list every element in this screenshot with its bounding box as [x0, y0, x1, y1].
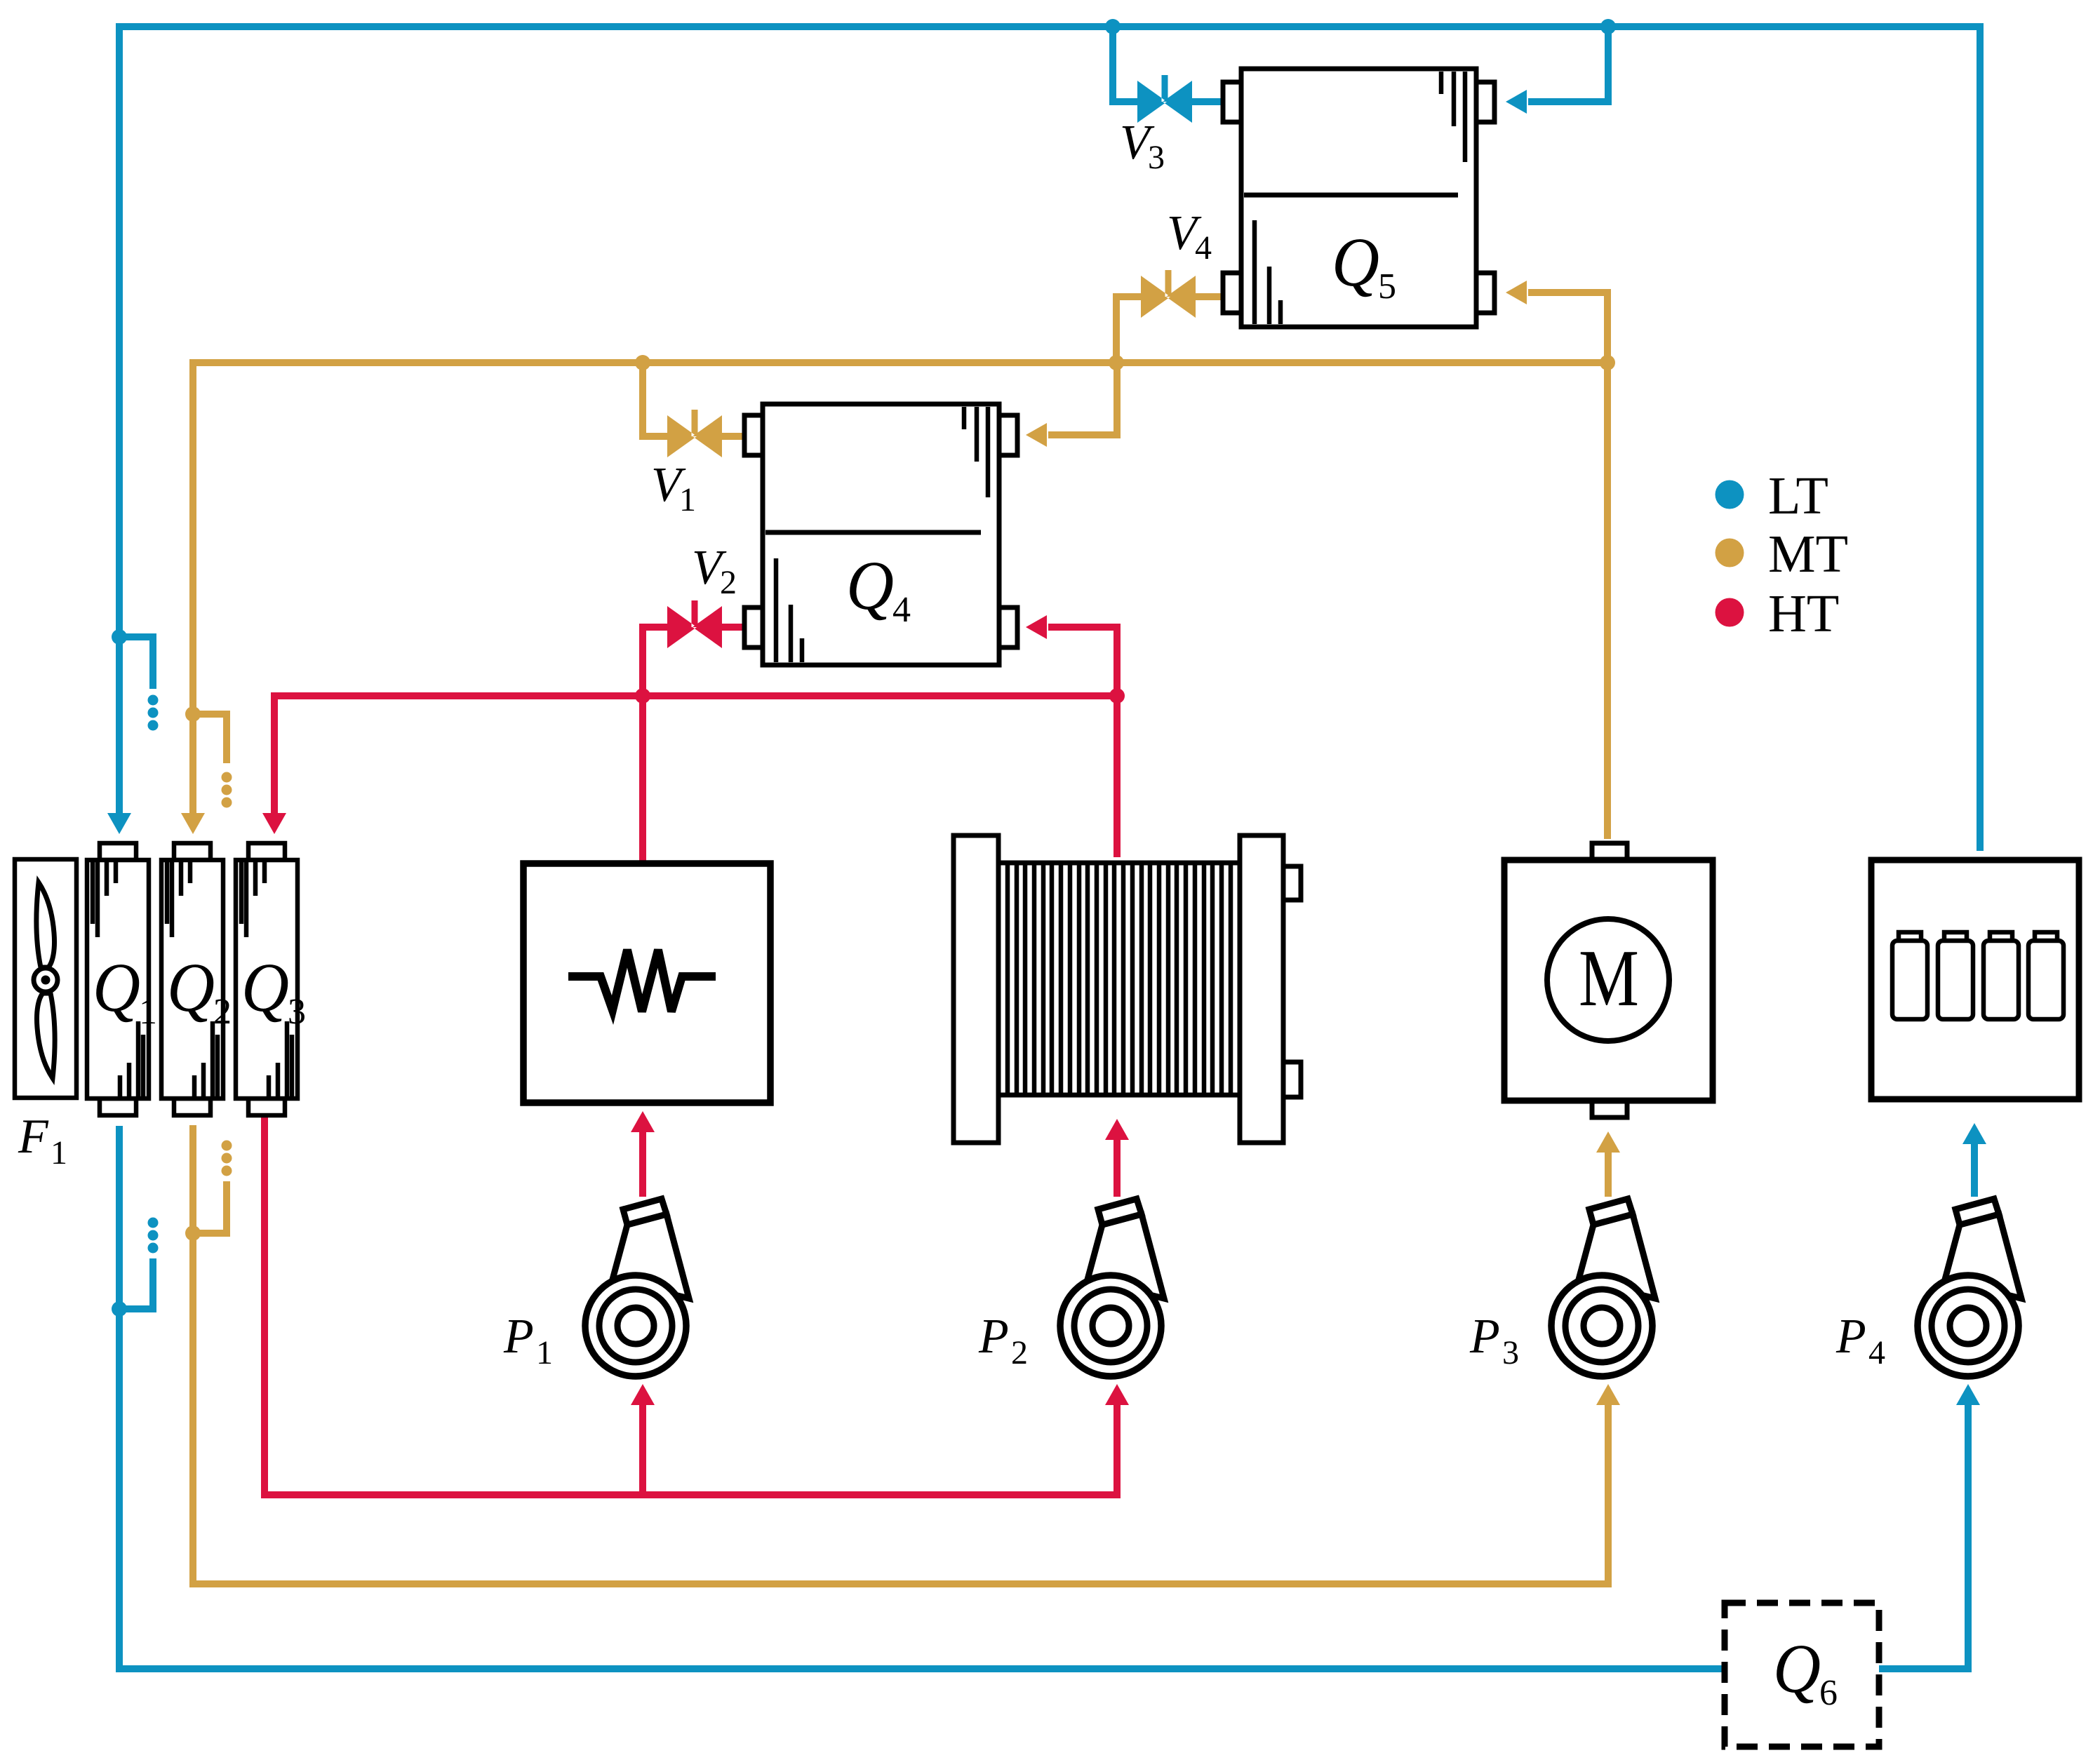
wire HT P1 outlet into heater bottom [639, 1132, 646, 1197]
fuel-cell stack core [998, 863, 1240, 1095]
svg-text:4: 4 [1195, 229, 1212, 267]
heat exchanger Q4 [744, 404, 1017, 665]
svg-text:M: M [1579, 934, 1639, 1023]
wire HT heater riser through V2 junction [643, 627, 667, 864]
valve V4 [1141, 270, 1196, 318]
node MT rejoin junction [185, 1225, 201, 1241]
svg-text:Q: Q [1773, 1630, 1821, 1707]
wire MT ellipsis stub upper [193, 714, 227, 763]
wire LT ellipsis stub upper [119, 637, 153, 689]
wire MT feed into Q4 right-top port [1048, 363, 1117, 435]
svg-text:Q: Q [1332, 223, 1379, 301]
wire LT feed into Q5 right-top port [1528, 27, 1608, 102]
wire MT ellipsis stub lower [193, 1181, 227, 1233]
svg-text:2: 2 [1011, 1334, 1028, 1371]
valve V2 [667, 600, 722, 648]
svg-text:MT: MT [1768, 525, 1848, 584]
node MT junction at V1 drop [635, 355, 650, 370]
MT arrow into Q2 top [181, 813, 205, 834]
wire MT P3 outlet to motor bottom [1605, 1153, 1612, 1197]
battery box [1871, 860, 2079, 1099]
wire MT riser to V4 [1116, 297, 1141, 363]
legend MT dot [1716, 539, 1744, 567]
pump P1 [585, 1199, 689, 1376]
heat exchanger Q5 [1223, 69, 1494, 327]
stack right end plate [1240, 835, 1283, 1143]
radiator Q1 [87, 843, 149, 1115]
svg-text:6: 6 [1819, 1673, 1838, 1713]
pump P4 [1918, 1199, 2021, 1376]
node LT junction at Q5 right feed [1600, 19, 1616, 34]
stack left end plate [954, 835, 998, 1143]
node HT 4-way junction [635, 688, 650, 704]
wire MT drop to V1 [643, 363, 667, 436]
svg-text:Q: Q [167, 948, 215, 1026]
svg-text:3: 3 [288, 992, 306, 1032]
wire LT from Q1 bottom to bottom trunk into Q6 [119, 1126, 1725, 1669]
svg-text:4: 4 [892, 590, 911, 630]
wire V3 to Q5 left-top port [1192, 98, 1223, 105]
svg-text:LT: LT [1768, 466, 1828, 525]
stack right tabs [1283, 866, 1301, 900]
pump P3 [1551, 1199, 1655, 1376]
legend HT dot [1716, 598, 1744, 627]
wire LT main: left riser, top trunk, battery drop [119, 27, 1980, 851]
wire HT feed into Q4 right-bottom port [1048, 627, 1117, 696]
wire LT drop to V3 [1113, 27, 1137, 102]
wire HT tee to P1 inlet [639, 1405, 646, 1495]
svg-text:P: P [1469, 1310, 1500, 1364]
svg-text:2: 2 [213, 992, 232, 1032]
fan F1 [15, 859, 76, 1098]
wire LT from Q6 right up to P4 inlet [1879, 1405, 1968, 1669]
wire MT main: Q2 drop, mid trunk, motor drop [193, 363, 1607, 839]
wire LT ellipsis dots upper [148, 695, 159, 706]
dashed box Q6 [1725, 1603, 1879, 1747]
svg-text:P: P [978, 1310, 1009, 1364]
wire MT ellipsis dots lower [222, 1141, 232, 1151]
svg-text:3: 3 [1502, 1334, 1519, 1371]
valve V3 [1137, 75, 1192, 123]
wire V4 to Q5 left-bottom port [1196, 293, 1223, 300]
LT arrow into Q1 top [107, 813, 131, 834]
svg-text:4: 4 [1868, 1334, 1885, 1371]
wire MT from Q2 bottom to bottom trunk up to P3 inlet [193, 1125, 1608, 1584]
wire LT ellipsis stub lower [119, 1258, 153, 1309]
svg-text:Q: Q [241, 948, 289, 1026]
wire HT down into stack top [1113, 696, 1121, 857]
node MT junction at Q5 right feed [1600, 355, 1615, 370]
svg-text:P: P [503, 1310, 534, 1364]
svg-text:1: 1 [139, 992, 157, 1032]
wire HT upper trunk with Q3 drop [274, 696, 1117, 814]
radiator Q3 [236, 843, 297, 1115]
wire MT ellipsis dots upper [222, 772, 232, 783]
wire HT P2 outlet into stack bottom [1113, 1140, 1121, 1197]
radiator Q2 [161, 843, 223, 1115]
heater box [523, 864, 770, 1103]
svg-text:P: P [1835, 1310, 1866, 1364]
wire HT from Q3 bottom along lower trunk up to P2 inlet [265, 1115, 1117, 1495]
node MT junction left [185, 706, 201, 722]
wire V1 to Q4 left-top port [722, 433, 746, 440]
svg-text:Q: Q [846, 546, 894, 624]
svg-text:HT: HT [1768, 584, 1839, 643]
svg-text:1: 1 [679, 481, 696, 518]
pump P2 [1060, 1199, 1164, 1376]
svg-text:3: 3 [1148, 139, 1165, 176]
valve V1 [667, 410, 722, 457]
wire V2 to Q4 left-bottom port [722, 624, 744, 631]
svg-text:1: 1 [536, 1334, 553, 1371]
svg-text:1: 1 [51, 1134, 67, 1171]
svg-text:Q: Q [93, 948, 140, 1026]
svg-text:5: 5 [1378, 267, 1396, 307]
node LT rejoin junction [112, 1301, 127, 1317]
node LT junction at V3 drop [1105, 19, 1121, 34]
wire LT P4 outlet to battery bottom [1971, 1144, 1978, 1197]
HT arrow into Q3 top [262, 813, 286, 834]
svg-text:2: 2 [720, 564, 737, 601]
wire MT feed into Q5 right-bottom port [1528, 293, 1607, 363]
node LT junction left [112, 629, 127, 645]
node MT junction at V4/Q4 column [1109, 355, 1124, 370]
motor box [1504, 843, 1713, 1117]
wire LT ellipsis dots lower [148, 1218, 159, 1228]
node HT junction at stack column [1109, 688, 1125, 704]
svg-text:F: F [18, 1110, 49, 1164]
resistor symbol [568, 950, 716, 1012]
legend LT dot [1716, 481, 1744, 509]
